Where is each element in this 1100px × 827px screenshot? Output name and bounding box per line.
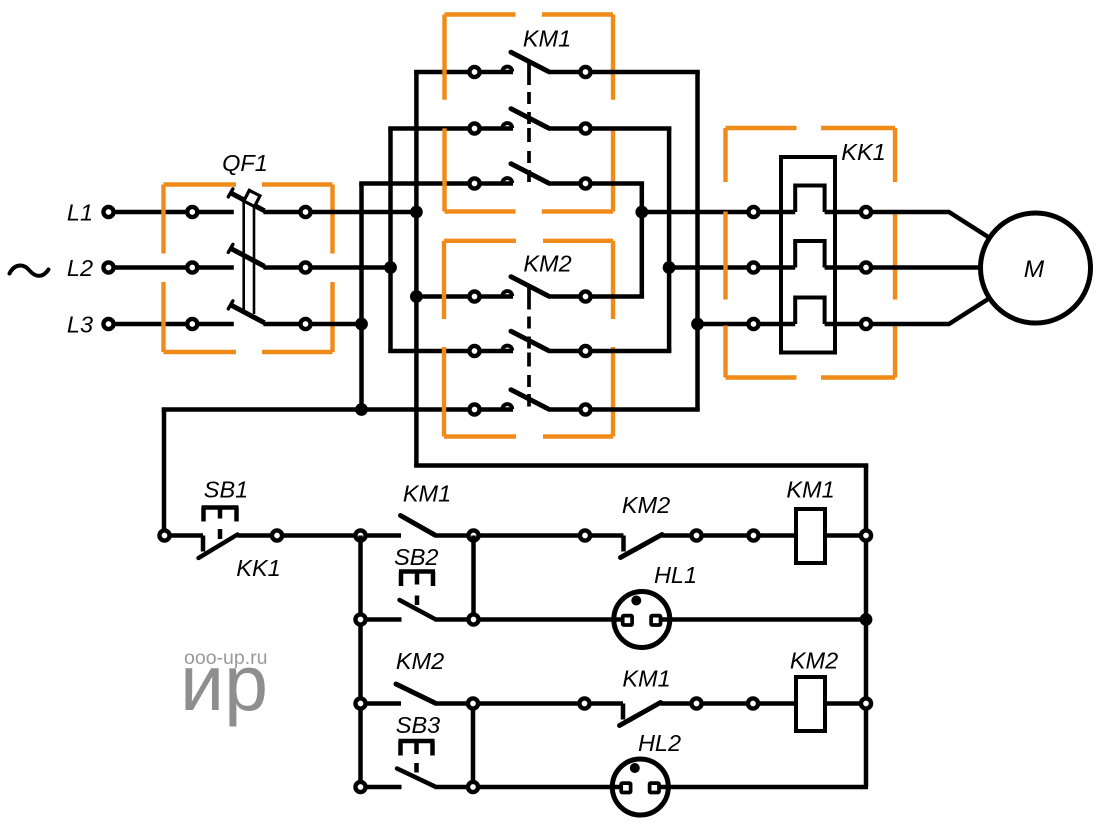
node Y2 terminal (468, 614, 478, 624)
coil KM1 (796, 509, 825, 563)
svg-text:HL1: HL1 (654, 562, 697, 588)
svg-text:ир: ир (180, 638, 268, 727)
wire SB2 out (435, 617, 469, 622)
terminal before KM1 NC (579, 698, 589, 708)
node D junction dot (635, 206, 648, 219)
wire into coil KM1 (760, 533, 797, 538)
KK1 pole1 terminals (748, 207, 871, 217)
thermal relay KK1 heater element (781, 157, 835, 353)
label coil KM1 (786, 477, 834, 503)
wire into KM1 NC (590, 701, 623, 706)
node A junction dot KM2 row1 (410, 290, 423, 303)
KK1 pole2 terminals (748, 262, 871, 272)
wire to KM1 pole1 (414, 70, 470, 75)
breaker trip square QF1 (244, 190, 260, 206)
label KK1 control contact (236, 555, 280, 581)
wire to lamp HL2 (479, 785, 614, 790)
wire into coil KM2 (759, 701, 797, 706)
indicator lamp HL2 (612, 759, 668, 815)
label HL2 (638, 730, 681, 756)
wire HL1 to rail (670, 617, 866, 622)
svg-text:L3: L3 (67, 312, 93, 338)
svg-text:HL2: HL2 (638, 730, 681, 756)
label KK1 (841, 139, 885, 165)
wire L3 after QF1 (312, 322, 362, 327)
wire KM2 aux out (435, 701, 469, 706)
contactor contact KM2 pole1 (469, 277, 590, 302)
thermal relay KK1 dashed box (726, 128, 896, 378)
wire KM2 pole3 out (592, 407, 700, 412)
wire HL2 to rail (669, 785, 869, 790)
AC source symbol ~ (10, 265, 49, 275)
wire KM2 pole2 out (592, 349, 672, 354)
KM1 mechanical linkage (527, 62, 531, 182)
wire KK1 to motor phase2 (872, 265, 981, 270)
svg-text:SB3: SB3 (396, 712, 440, 738)
terminal before KM2 NC (580, 530, 590, 540)
label L2 (67, 255, 93, 281)
wire vertical node E (667, 129, 672, 352)
wire KK1 to motor phase1 (872, 212, 989, 238)
wire to SB3 (366, 785, 402, 790)
terminal control start (159, 530, 169, 540)
breaker pole L3 contacts (187, 301, 310, 329)
terminal L1 (103, 207, 113, 217)
label KM1 aux (403, 481, 451, 507)
wire node F to KK1 (698, 322, 749, 327)
wire L3 to QF1 (115, 322, 189, 327)
svg-text:KK1: KK1 (236, 555, 280, 581)
wire latch tie KM2 (471, 704, 476, 788)
wire to KM1 pole2 (388, 126, 470, 131)
label coil KM2 (790, 648, 838, 674)
svg-text:L2: L2 (67, 255, 93, 281)
coil KM2 (796, 677, 825, 731)
control feed wire (top) (414, 463, 868, 468)
contactor contact KM1 pole1 (469, 52, 590, 77)
junction dot HL1 rail (860, 613, 873, 626)
wire KM1 NC out (661, 701, 692, 706)
label KM2 contact group (523, 251, 571, 277)
contactor contact KM2 pole3 (469, 390, 590, 415)
wire to SB2 (366, 617, 402, 622)
node X2 terminal (355, 614, 365, 624)
node Y terminal (468, 530, 478, 540)
wire SB1 out (238, 533, 273, 538)
wire node X to KM1 aux (366, 533, 401, 538)
label KM1 contact group (523, 26, 571, 52)
wire SB3 out (435, 785, 469, 790)
wire KM2 NC out (662, 533, 692, 538)
KM2 auxiliary NO contact (396, 684, 435, 703)
terminal after KM2 NC (691, 530, 701, 540)
wire KM1 aux out (435, 533, 469, 538)
label M (1024, 256, 1045, 283)
motor M (981, 213, 1091, 323)
svg-text:KM1: KM1 (403, 481, 451, 507)
node Z terminal (468, 698, 478, 708)
wire to branch node X (283, 533, 356, 538)
contactor contact KM1 pole2 (469, 109, 590, 134)
node X terminal (355, 530, 365, 540)
svg-text:KM2: KM2 (523, 251, 571, 277)
contactor contact KM1 pole3 (469, 164, 590, 189)
node X3 terminal (355, 698, 365, 708)
label L3 (67, 312, 93, 338)
node B junction dot on L2 (384, 261, 397, 274)
wire latch tie KM1 (471, 536, 476, 620)
wire to SB1 (171, 533, 204, 538)
terminal before coil KM2 (748, 698, 758, 708)
svg-text:KM1: KM1 (622, 666, 670, 692)
breaker pole L2 contacts (187, 244, 310, 272)
node F junction dot (691, 318, 704, 331)
wire L2 after QF1 (312, 265, 391, 270)
node E junction dot (663, 261, 676, 274)
wire left control rail (162, 410, 167, 532)
terminal after KM1 NC (691, 698, 701, 708)
label KM1 interlock (622, 666, 670, 692)
wire vertical node C (L3 feed) (359, 184, 364, 410)
wire right control rail (864, 466, 869, 788)
svg-text:QF1: QF1 (222, 150, 268, 176)
start button SB3 (397, 741, 435, 786)
label SB2 (394, 544, 438, 570)
contactor contact KM2 pole2 (469, 331, 590, 356)
terminal coil KM1 rail (861, 530, 871, 540)
wire into KM2 NC (591, 533, 624, 538)
contactor KM1 dashed box (445, 15, 614, 212)
KM1 interlock NC contact (620, 703, 661, 726)
wire vertical node F (695, 72, 700, 410)
label KM2 interlock (622, 492, 670, 518)
wire L2 to QF1 (115, 265, 189, 270)
stop button SB1 (199, 508, 239, 559)
label SB3 (396, 712, 440, 738)
svg-text:KM2: KM2 (622, 492, 670, 518)
wire node D to KK1 (642, 210, 749, 215)
terminal L3 (103, 319, 113, 329)
wire coil KM2 to rail (825, 701, 861, 706)
node A junction dot on L1 (410, 206, 423, 219)
indicator lamp HL1 (614, 592, 670, 648)
node C junction dot row KM2-3 feed (355, 403, 368, 416)
svg-text:KM1: KM1 (523, 26, 571, 52)
wire vertical node D (640, 184, 645, 297)
breaker pole L1 contacts (187, 189, 310, 217)
wire to coil KM1 (702, 533, 749, 538)
wire node Y to KM2 interlock (479, 533, 580, 538)
node X4 terminal (355, 782, 365, 792)
wire to KM1 pole3 (359, 181, 470, 186)
label SB1 (204, 477, 248, 503)
wire L1 after QF1 (312, 210, 417, 215)
wire node E to KK1 (669, 265, 748, 270)
wire vertical node A (L1 feed) (414, 72, 419, 466)
svg-text:SB1: SB1 (204, 477, 248, 503)
wire KM1 pole3 out (592, 181, 645, 186)
terminal after SB1 (272, 530, 282, 540)
wire KM1 pole2 out (592, 126, 672, 131)
wire L1 to QF1 (115, 210, 189, 215)
terminal coil KM2 rail (861, 698, 871, 708)
label QF1 (222, 150, 268, 176)
KM2 mechanical linkage (527, 287, 531, 407)
wire coil KM1 to rail (825, 533, 861, 538)
contactor KM2 dashed box (444, 241, 613, 437)
wire to KM2 pole1 (416, 294, 470, 299)
wire to KM2 aux (366, 701, 401, 706)
node Z2 terminal (468, 782, 478, 792)
wire KM2 pole1 out (592, 294, 645, 299)
wire to lamp HL1 (479, 617, 615, 622)
terminal before coil KM1 (748, 530, 758, 540)
svg-text:M: M (1024, 256, 1045, 283)
watermark ir logo (180, 638, 268, 727)
label L1 (67, 200, 93, 226)
KK1 pole3 terminals (748, 319, 871, 329)
breaker linkage bar (244, 200, 254, 314)
wire KM1 pole1 out (592, 70, 700, 75)
label HL1 (654, 562, 697, 588)
wire to KM2 pole2 (388, 349, 470, 354)
node C junction dot on L3 (355, 318, 368, 331)
wire to coil KM2 (702, 701, 748, 706)
watermark ooo-up.ru (184, 647, 267, 669)
wire L3 branch to KM2 pole3 and control rail (162, 407, 470, 412)
svg-text:KM1: KM1 (786, 477, 834, 503)
svg-text:KK1: KK1 (841, 139, 885, 165)
wire node Z to KM1 interlock (479, 701, 580, 706)
start button SB2 (399, 572, 435, 619)
wire KK1 to motor phase3 (872, 299, 989, 325)
KM1 auxiliary NO contact (401, 516, 435, 535)
label KM2 aux (396, 648, 444, 674)
svg-text:KM2: KM2 (396, 648, 444, 674)
terminal L2 (103, 262, 113, 272)
wire vertical node B (L2 feed) (388, 129, 393, 352)
KM2 interlock NC contact (621, 535, 663, 558)
svg-text:SB2: SB2 (394, 544, 438, 570)
svg-text:L1: L1 (67, 200, 93, 226)
circuit breaker QF1 dashed box (164, 185, 333, 353)
wire branch X vertical (358, 536, 363, 788)
svg-text:KM2: KM2 (790, 648, 838, 674)
